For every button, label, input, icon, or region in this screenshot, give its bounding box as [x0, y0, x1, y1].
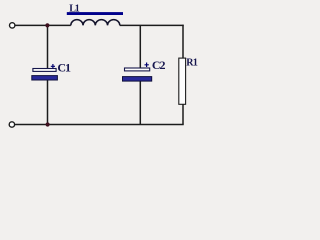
svg-text:C2: C2 — [152, 58, 166, 72]
svg-text:R1: R1 — [186, 57, 198, 68]
svg-text:L1: L1 — [69, 4, 79, 15]
svg-text:C1: C1 — [57, 61, 71, 75]
